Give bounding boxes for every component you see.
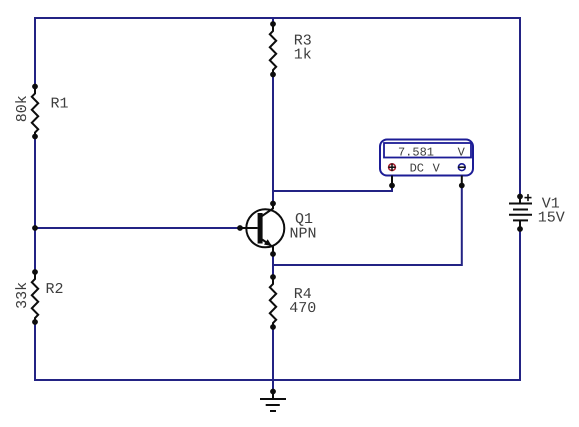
svg-text:V: V: [433, 161, 441, 175]
pin dot R3 bottom: [270, 72, 276, 78]
resistor R3: [270, 24, 276, 75]
wire top rail: [34, 17, 521, 19]
battery plate 1 (long +): [509, 203, 532, 205]
voltmeter - lead stub: [461, 176, 463, 186]
voltmeter - terminal symbol: [458, 164, 465, 171]
Q1 emitter arrow: [264, 239, 272, 246]
Q1 base pin: [240, 227, 258, 229]
pin dot R4 bottom: [270, 324, 276, 330]
svg-text:470: 470: [289, 300, 316, 317]
voltmeter display window: [384, 143, 471, 158]
battery plate 2 (short): [513, 209, 528, 211]
Q1 emitter pin: [262, 240, 273, 255]
pin dot R2 bottom: [32, 319, 38, 325]
Q1 body circle: [246, 209, 284, 247]
battery bottom pin stub: [519, 220, 521, 229]
wire R4 to bottom rail and ground: [272, 327, 274, 392]
wire bottom rail: [34, 379, 521, 381]
wire voltmeter - lead to emitter node: [272, 186, 462, 266]
svg-text:80k: 80k: [14, 95, 31, 122]
wire R3 to collector: [272, 74, 274, 203]
wire base (left rail to Q1 base): [35, 227, 241, 229]
wire left rail middle (R1 to R2 through base node): [34, 136, 36, 273]
ground bar 3: [270, 410, 276, 412]
pin dot R1 top: [32, 84, 38, 90]
ground bar 1: [260, 398, 286, 400]
battery V1: [509, 194, 532, 229]
svg-text:NPN: NPN: [289, 226, 316, 243]
pin dot Q1 base: [237, 225, 243, 231]
battery + sign: [525, 197, 532, 199]
ground: [260, 392, 286, 412]
resistor R2: [32, 272, 38, 322]
wire right rail upper (top corner to battery +): [519, 17, 521, 197]
junction dot base node on left rail: [32, 225, 38, 231]
ground bar 2: [266, 404, 280, 406]
battery top pin stub: [519, 197, 521, 204]
pin dot R2 top: [32, 269, 38, 275]
svg-text:15V: 15V: [538, 209, 565, 226]
pin dot Q1 collector: [270, 201, 276, 207]
pin dot R3 top: [270, 21, 276, 27]
battery plate 3 (long): [509, 214, 532, 216]
pin dot battery +: [517, 194, 523, 200]
pin dot ground: [270, 389, 276, 395]
svg-text:R2: R2: [45, 281, 63, 298]
svg-text:1k: 1k: [294, 47, 312, 64]
wire right rail lower (battery - to bottom corner): [519, 229, 521, 381]
ground pin stub: [272, 392, 274, 400]
wire R3 stub from top rail: [272, 17, 274, 25]
voltmeter + lead stub: [391, 176, 393, 186]
pin dot voltmeter -: [459, 183, 465, 189]
svg-text:33k: 33k: [14, 282, 31, 309]
pin dot R4 top: [270, 274, 276, 280]
voltmeter U1: [380, 140, 473, 186]
Q1 collector pin: [262, 204, 273, 217]
Q1 base bar: [258, 213, 263, 244]
pin dot R1 bottom: [32, 134, 38, 140]
resistor R1: [32, 87, 38, 137]
voltmeter body: [380, 140, 473, 176]
wire voltmeter + lead to collector node: [272, 186, 392, 192]
wire emitter to R4: [272, 254, 274, 278]
transistor Q1: [240, 204, 284, 255]
resistor R4: [270, 277, 276, 327]
wire left rail upper (top corner to R1): [34, 17, 36, 87]
svg-text:V: V: [458, 146, 466, 160]
voltmeter + terminal symbol: [389, 164, 396, 171]
svg-text:R1: R1: [50, 96, 68, 113]
svg-text:DC: DC: [410, 161, 424, 175]
svg-text:7.581: 7.581: [398, 146, 434, 160]
wire left rail lower (R2 to bottom corner): [34, 322, 36, 382]
pin dot Q1 emitter: [270, 251, 276, 257]
pin dot voltmeter +: [389, 183, 395, 189]
battery plate 4 (short -): [513, 219, 528, 221]
pin dot battery -: [517, 226, 523, 232]
